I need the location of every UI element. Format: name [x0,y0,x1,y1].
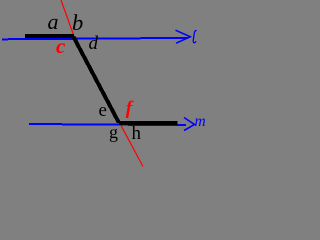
node c: angle label c (red) [56,36,65,57]
wire: line l (blue horizontal) [2,37,188,40]
wire: red ray below line m [121,126,143,167]
wire: red ray above line l [61,0,73,34]
node a: angle label a [48,11,59,33]
wire: thick black transversal segment [71,36,122,123]
wire: line m arrowhead [184,118,195,131]
node b: angle label b [72,12,83,35]
node g: angle label g [109,123,118,141]
wire: thick black segment on line m [119,121,178,125]
node f: angle label f (red) [126,99,132,118]
node m: line label m [195,114,206,130]
wire: line m (blue horizontal) [29,123,186,126]
geometry figure: parallel lines l and m cut by a transversal [0,0,218,168]
node l: line label l [0,0,218,168]
node d: angle label d [89,34,99,53]
node h: angle label h [132,124,142,143]
node e: angle label e [99,101,107,120]
wire: thick black segment on line l [25,34,74,38]
wire: line l arrowhead [176,30,191,43]
